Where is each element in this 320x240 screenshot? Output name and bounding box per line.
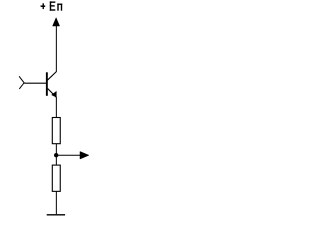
resistor R2	[52, 165, 60, 191]
power rail label "+Еп" : letter Е	[50, 2, 55, 11]
wire: base lead	[24, 82, 46, 84]
power rail label "+Еп" : letter п	[58, 4, 63, 11]
wire: emitter to resistor R1	[55, 97, 57, 118]
ground bar	[47, 214, 65, 216]
junction node (output tap)	[54, 153, 58, 157]
output arrow	[80, 152, 89, 160]
wire: output lead	[56, 154, 80, 156]
wire: R2 bottom to ground	[55, 191, 57, 214]
power supply arrow (+En terminal)	[53, 18, 60, 26]
transistor emitter arrow (NPN)	[52, 91, 57, 97]
wire: collector rail from supply arrow down	[55, 26, 57, 72]
transistor emitter lead	[48, 89, 57, 98]
transistor base bar	[46, 72, 48, 96]
power rail label "+Еп" : plus sign	[41, 4, 45, 9]
transistor collector lead	[47, 72, 56, 81]
resistor R1	[52, 118, 60, 144]
wire: R1 bottom through node to R2 top	[55, 144, 57, 165]
input chevron on base	[19, 76, 24, 89]
